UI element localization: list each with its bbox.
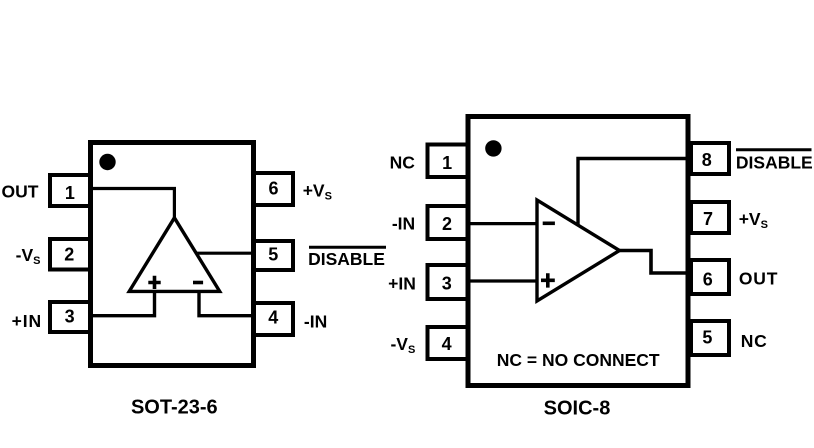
overline for DISABLE (U2 pin8) bbox=[736, 148, 812, 151]
svg-text:OUT: OUT bbox=[2, 182, 39, 202]
IC package U1 SOT-23-6 body bbox=[91, 143, 254, 366]
svg-text:2: 2 bbox=[64, 244, 74, 264]
svg-text:6: 6 bbox=[703, 270, 713, 290]
wire pin3 to op-amp A2 non-inverting input bbox=[470, 279, 537, 282]
pin 4 box (U1) bbox=[253, 303, 293, 335]
pin 8 box (U2) bbox=[691, 143, 729, 174]
svg-text:-IN: -IN bbox=[392, 214, 415, 234]
wire pin8 DISABLE to op-amp A2 top bbox=[578, 159, 688, 226]
svg-text:1: 1 bbox=[65, 183, 75, 203]
svg-text:2: 2 bbox=[442, 214, 452, 234]
wire pin5 to op-amp A1 disable (right side) bbox=[195, 252, 253, 255]
pin 1 box (U2) bbox=[428, 145, 469, 178]
overline for DISABLE (U1 pin5) bbox=[309, 246, 386, 249]
op-amp A1 plus input sign bbox=[148, 276, 160, 289]
svg-text:NC: NC bbox=[390, 153, 416, 173]
pin 7 box (U2) bbox=[691, 202, 729, 233]
pin 3 box (U1) bbox=[50, 302, 90, 332]
pin 1 box (U1) bbox=[50, 175, 90, 206]
pin 3 box (U2) bbox=[428, 265, 469, 299]
pin 5 box (U1) bbox=[253, 241, 293, 270]
pin 2 box (U2) bbox=[428, 206, 469, 239]
op-amp A1 minus input sign bbox=[193, 281, 203, 285]
pin 6 box (U1) bbox=[253, 173, 293, 205]
pin 1 marker dot (U1) bbox=[99, 154, 115, 170]
wire op-amp A2 output to pin6 bbox=[620, 251, 689, 274]
wire pin1 to op-amp A1 output bbox=[92, 189, 174, 220]
wire pin2 to op-amp A2 inverting input bbox=[470, 222, 537, 225]
op-amp A2 minus input sign bbox=[543, 222, 555, 226]
svg-text:DISABLE: DISABLE bbox=[736, 152, 813, 172]
op-amp A2 triangle (U2) bbox=[537, 200, 620, 301]
svg-text:DISABLE: DISABLE bbox=[308, 249, 385, 269]
svg-text:7: 7 bbox=[703, 209, 713, 229]
svg-text:6: 6 bbox=[268, 178, 278, 198]
wire pin3 to op-amp A1 non-inverting input bbox=[90, 292, 155, 316]
svg-text:5: 5 bbox=[702, 327, 712, 347]
op-amp A2 plus input sign bbox=[541, 273, 555, 287]
IC package U2 SOIC-8 body bbox=[468, 117, 688, 386]
svg-text:+IN: +IN bbox=[12, 311, 42, 331]
svg-text:5: 5 bbox=[268, 245, 278, 265]
svg-text:1: 1 bbox=[442, 153, 452, 173]
svg-text:SOT-23-6: SOT-23-6 bbox=[131, 397, 218, 419]
svg-text:3: 3 bbox=[442, 274, 452, 294]
svg-text:NC = NO CONNECT: NC = NO CONNECT bbox=[497, 350, 660, 370]
pin 2 box (U1) bbox=[50, 239, 90, 270]
svg-text:4: 4 bbox=[442, 334, 452, 354]
svg-text:8: 8 bbox=[702, 150, 712, 170]
svg-text:4: 4 bbox=[268, 308, 278, 328]
svg-text:NC: NC bbox=[741, 331, 768, 351]
svg-text:+IN: +IN bbox=[388, 274, 416, 294]
svg-text:-IN: -IN bbox=[304, 311, 327, 331]
pin 1 marker dot (U2) bbox=[485, 140, 501, 156]
wire pin4 to op-amp A1 inverting input bbox=[199, 292, 254, 316]
pin 4 box (U2) bbox=[428, 327, 469, 359]
pin 6 box (U2) bbox=[691, 260, 729, 294]
svg-text:OUT: OUT bbox=[739, 268, 778, 288]
pin 5 box (U2) bbox=[691, 321, 729, 355]
op-amp A1 triangle (U1) bbox=[129, 218, 220, 292]
svg-text:SOIC-8: SOIC-8 bbox=[544, 398, 611, 420]
svg-text:3: 3 bbox=[65, 307, 75, 327]
